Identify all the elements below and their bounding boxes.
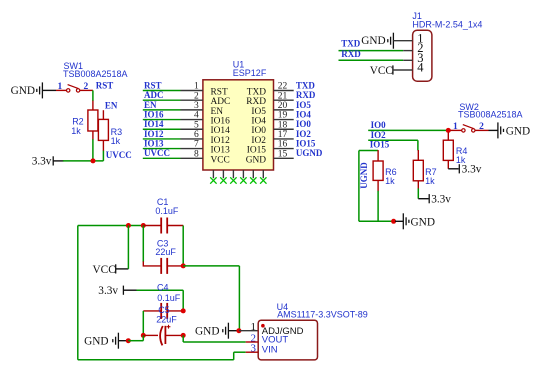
wire bottom rail VIN loop: [78, 359, 234, 361]
junction C5 right: [181, 333, 186, 338]
wire R3 to 3.3v rail: [102, 151, 104, 161]
wire IO2 horizontal: [368, 139, 418, 141]
U1 pin 3 line: [181, 109, 203, 111]
capacitor C4 left lead: [143, 310, 161, 312]
svg-text:IO13: IO13: [211, 146, 231, 156]
wire C5 right down to VOUT: [182, 335, 184, 342]
no-connect X on U1 pin 14: [260, 177, 266, 183]
wire R7 to 3.3v: [418, 198, 428, 200]
no-connect X on U1 pin 10: [220, 177, 226, 183]
svg-text:5: 5: [194, 120, 199, 130]
U1 pin 6 line: [181, 138, 203, 140]
svg-text:19: 19: [278, 111, 288, 121]
U1 pin 16 line: [274, 148, 294, 150]
svg-text:RXD: RXD: [341, 49, 361, 59]
svg-text:1k: 1k: [71, 126, 81, 136]
SW1 pin 1 lead: [56, 89, 66, 91]
resistor R4 top lead: [447, 132, 449, 140]
svg-text:7: 7: [194, 140, 199, 150]
wire U4 pin1 column: [238, 266, 240, 331]
capacitor C1 left lead: [143, 225, 161, 227]
switch SW2: [462, 125, 475, 132]
resistor R4 bottom lead: [447, 160, 449, 168]
junction GND bottom left: [126, 338, 131, 343]
svg-text:HDR-M-2.54_1x4: HDR-M-2.54_1x4: [412, 19, 482, 29]
svg-text:18: 18: [278, 120, 288, 130]
svg-text:6: 6: [194, 130, 199, 140]
capacitor C1: [161, 218, 167, 234]
resistor R2: [88, 110, 98, 131]
svg-text:ADC: ADC: [144, 90, 164, 100]
wire RST net vertical: [92, 90, 94, 101]
capacitor C5 left lead: [143, 334, 158, 336]
ground symbol (J1): [388, 33, 394, 49]
svg-text:IO14: IO14: [144, 119, 164, 129]
resistor R3 bottom lead: [102, 140, 104, 151]
svg-text:IO15: IO15: [370, 140, 390, 150]
J1 pin 1 line: [393, 40, 412, 42]
ground symbol (bottom left): [113, 333, 119, 349]
wire GND to SW1 pin 1: [42, 89, 56, 91]
connector J1 body: [413, 30, 432, 81]
U1 bottom pin 13 line: [252, 170, 254, 178]
resistor R3: [98, 119, 108, 140]
junction C1/C3 left: [141, 223, 146, 228]
wire net ADC to U1 pin 2: [143, 99, 181, 101]
J1 pin 4 line: [393, 69, 413, 71]
wire GND rail (SW2 block): [359, 220, 394, 222]
ground symbol (R6): [403, 213, 409, 229]
J1 pin 3 line: [403, 59, 412, 61]
U1 bottom pin 11 line: [232, 170, 234, 178]
power VCC bar (cap block): [115, 264, 117, 273]
power 3.3v pin (cap block): [123, 289, 136, 291]
capacitor C4 right lead: [167, 310, 183, 312]
svg-text:3.3v: 3.3v: [431, 194, 451, 206]
U1 pin 15 line: [274, 157, 294, 159]
svg-text:UGND: UGND: [296, 148, 323, 158]
svg-text:EN: EN: [105, 101, 118, 111]
wire 3.3v rail (SW1 block): [63, 160, 104, 162]
U1 bottom pin 10 line: [222, 170, 224, 178]
wire top rail: [78, 225, 144, 227]
svg-text:TXD: TXD: [247, 88, 266, 98]
svg-text:EN: EN: [144, 100, 157, 110]
no-connect X on U1 pin 9: [210, 177, 216, 183]
svg-text:IO4: IO4: [251, 117, 266, 127]
svg-text:4: 4: [194, 111, 199, 121]
power 3.3v pin (left): [53, 160, 63, 162]
svg-text:8: 8: [194, 149, 199, 159]
wire net IO12 to U1 pin 6: [143, 138, 181, 140]
capacitor C3 right lead: [167, 265, 183, 267]
svg-text:VCC: VCC: [211, 155, 230, 165]
no-connect X on U1 pin 12: [240, 177, 246, 183]
svg-text:GND: GND: [11, 85, 35, 97]
resistor R4: [443, 140, 453, 160]
svg-text:ESP12F: ESP12F: [233, 68, 267, 78]
svg-text:1: 1: [194, 82, 199, 92]
svg-text:IO0: IO0: [251, 126, 266, 136]
svg-text:IO16: IO16: [211, 117, 231, 127]
wire VIN to U4 pin 3: [234, 351, 246, 353]
svg-text:ADC: ADC: [211, 97, 231, 107]
wire net UVCC to U1 pin 8: [143, 157, 181, 159]
GND pin (mid): [228, 330, 239, 332]
wire R6 to GND rail: [377, 191, 379, 222]
J1 pin 2 line: [403, 50, 412, 52]
U1 pin 17 line: [274, 138, 294, 140]
U1 bottom pin 14 line: [262, 170, 264, 178]
power 3.3v bar (left): [52, 156, 54, 165]
resistor R6 top lead: [377, 150, 379, 161]
power 3.3v bar (R4): [458, 164, 460, 173]
svg-text:GND: GND: [361, 35, 385, 47]
wire net IO14 to U1 pin 5: [143, 128, 181, 130]
junction U4 pin 1: [236, 328, 241, 333]
ground symbol (mid): [223, 323, 229, 339]
svg-text:20: 20: [278, 101, 288, 111]
svg-text:TSB008A2518A: TSB008A2518A: [63, 69, 128, 79]
svg-text:GND: GND: [411, 216, 435, 228]
svg-text:3.3v: 3.3v: [32, 156, 52, 168]
resistor R7 bottom lead: [417, 181, 419, 189]
svg-text:VCC: VCC: [370, 65, 393, 77]
wire R4 to 3.3v: [448, 168, 458, 170]
svg-text:1k: 1k: [385, 176, 395, 186]
U1 pin 18 line: [274, 128, 294, 130]
svg-text:IO13: IO13: [144, 139, 164, 149]
svg-text:2: 2: [194, 91, 199, 101]
resistor R6: [373, 161, 383, 180]
svg-text:1k: 1k: [111, 136, 121, 146]
svg-text:GND: GND: [246, 155, 267, 165]
capacitor C5 right lead: [165, 334, 183, 336]
U4 pin-1 marker dot: [261, 324, 265, 328]
svg-text:RST: RST: [211, 88, 228, 98]
U1 pin 1 line: [181, 90, 203, 92]
capacitor C3: [161, 258, 167, 274]
svg-text:UGND: UGND: [359, 162, 369, 189]
svg-text:IO2: IO2: [251, 136, 266, 146]
regulator U4 body: [258, 320, 317, 360]
wire C4 right column upper: [182, 290, 184, 311]
svg-text:IO4: IO4: [296, 109, 312, 119]
U1 chip body: [203, 80, 274, 170]
svg-text:17: 17: [278, 130, 288, 140]
ground symbol (SW1): [37, 82, 43, 98]
svg-text:IO15: IO15: [296, 139, 316, 149]
junction C3 right: [181, 263, 186, 268]
svg-text:TXD: TXD: [341, 39, 361, 49]
junction C4 right: [181, 308, 186, 313]
U1 pin 19 line: [274, 119, 294, 121]
svg-text:GND: GND: [506, 125, 530, 137]
wire R7 down: [417, 188, 419, 198]
U4 pin 2 lead: [246, 341, 259, 343]
wire net IO16 to U1 pin 4: [143, 119, 181, 121]
wire junction to GND symbol: [395, 220, 403, 222]
svg-text:GND: GND: [195, 326, 219, 338]
wire VOUT to U4 pin 2: [183, 341, 246, 343]
svg-text:21: 21: [278, 91, 288, 101]
svg-text:22uF: 22uF: [155, 247, 176, 257]
svg-text:0.1uF: 0.1uF: [157, 293, 181, 303]
svg-text:RST: RST: [144, 80, 162, 90]
wire C5 left down leg: [142, 335, 144, 340]
wire TXD to J1 pin 2: [339, 50, 404, 52]
wire C3 right to U4 column: [183, 265, 239, 267]
svg-text:0.1uF: 0.1uF: [155, 206, 179, 216]
wire 3.3v to C4 column: [137, 289, 184, 291]
resistor R7: [413, 160, 423, 181]
svg-text:22uF: 22uF: [156, 315, 177, 325]
junction R2/3.3v rail: [91, 158, 96, 163]
power 3.3v bar (cap block): [122, 286, 124, 295]
svg-text:AMS1117-3.3VSOT-89: AMS1117-3.3VSOT-89: [277, 309, 368, 319]
U1 pin 5 line: [181, 128, 203, 130]
resistor R6 bottom lead: [377, 180, 379, 191]
SW2 pin 2 lead: [475, 129, 488, 131]
svg-text:UVCC: UVCC: [106, 150, 132, 160]
svg-text:R2: R2: [72, 117, 84, 127]
svg-text:IO5: IO5: [296, 100, 312, 110]
svg-text:IO15: IO15: [247, 146, 267, 156]
svg-text:IO2: IO2: [371, 130, 387, 140]
svg-text:GND: GND: [84, 336, 108, 348]
svg-text:IO0: IO0: [296, 119, 312, 129]
wire RXD to J1 pin 3: [339, 59, 404, 61]
svg-text:VCC: VCC: [93, 264, 116, 276]
SW2 pin 1 lead: [450, 129, 461, 131]
svg-text:VIN: VIN: [262, 345, 278, 356]
capacitor C4: [161, 303, 167, 319]
capacitor C5 (polarized): [160, 325, 170, 346]
svg-text:15: 15: [278, 149, 288, 159]
U1 pin 2 line: [181, 99, 203, 101]
power 3.3v bar (R7): [428, 194, 430, 203]
wire GND to C5 column: [128, 340, 143, 342]
wire net IO13 to U1 pin 7: [143, 148, 181, 150]
svg-text:1k: 1k: [425, 176, 435, 186]
svg-text:IO14: IO14: [211, 126, 231, 136]
switch SW1: [67, 85, 80, 93]
resistor R7 top lead: [417, 150, 419, 160]
svg-text:EN: EN: [211, 107, 224, 117]
SW1 pin 2 lead: [80, 89, 93, 91]
svg-text:UVCC: UVCC: [144, 148, 170, 158]
svg-text:IO16: IO16: [144, 109, 164, 119]
power VCC pin (cap block): [116, 268, 129, 270]
capacitor C3 left lead: [143, 261, 161, 266]
junction GND rail: [391, 219, 396, 224]
junction VCC tap: [126, 223, 131, 228]
svg-text:1: 1: [58, 82, 63, 92]
U4 pin 1 line: [239, 330, 258, 332]
svg-text:IO5: IO5: [251, 107, 266, 117]
svg-text:3.3v: 3.3v: [98, 285, 118, 297]
resistor R2 bottom lead: [92, 131, 94, 140]
resistor R2 top lead: [92, 101, 94, 110]
svg-text:TSB008A2518A: TSB008A2518A: [458, 110, 523, 120]
wire VIN up leg: [233, 352, 235, 360]
svg-text:22: 22: [278, 82, 288, 92]
svg-text:IO2: IO2: [296, 129, 312, 139]
svg-text:RXD: RXD: [296, 90, 316, 100]
U1 pin 7 line: [181, 148, 203, 150]
U1 pin 8 line: [181, 157, 203, 159]
svg-text:4: 4: [417, 61, 424, 75]
svg-text:TXD: TXD: [296, 80, 316, 90]
U1 pin 20 line: [274, 109, 294, 111]
wire C3 left vertical: [142, 226, 144, 263]
wire UGND vertical: [358, 151, 360, 222]
wire VCC to top rail: [127, 226, 129, 269]
junction IO0/R4/SW2: [446, 128, 451, 133]
wire IO2 vertical to R7: [417, 140, 419, 150]
svg-text:IO12: IO12: [211, 136, 231, 146]
wire net RST to U1 pin 1: [143, 90, 181, 92]
svg-text:IO0: IO0: [371, 120, 387, 130]
U4 pin 3 lead: [246, 351, 259, 353]
junction C5 left: [141, 333, 146, 338]
wire IO15 horizontal: [359, 150, 378, 152]
wire net EN to U1 pin 3: [143, 109, 181, 111]
wire SW2 to GND: [489, 129, 498, 131]
svg-text:16: 16: [278, 140, 288, 150]
svg-text:RST: RST: [96, 80, 114, 90]
resistor R3 top lead: [102, 110, 104, 119]
power VCC bar (J1): [392, 65, 394, 74]
svg-text:1: 1: [453, 122, 458, 132]
wire R2 to 3.3v rail: [92, 139, 94, 161]
svg-text:3.3v: 3.3v: [462, 164, 482, 176]
wire C1 right down to C3: [182, 226, 184, 266]
U1 bottom pin 12 line: [242, 170, 244, 178]
no-connect X on U1 pin 11: [230, 177, 236, 183]
ground symbol (SW2): [498, 122, 504, 138]
U1 pin 21 line: [274, 99, 294, 101]
U1 pin 4 line: [181, 119, 203, 121]
svg-text:1: 1: [251, 321, 257, 333]
wire IO0 to SW2: [368, 129, 448, 131]
wire C4 left down to C5: [142, 311, 144, 336]
U1 pin 22 line: [274, 90, 294, 92]
capacitor C1 right lead: [167, 225, 183, 227]
svg-text:C4: C4: [157, 282, 169, 292]
wire left riser VIN loop: [77, 226, 79, 360]
svg-text:RXD: RXD: [246, 97, 266, 107]
svg-text:IO12: IO12: [144, 129, 164, 139]
svg-text:3: 3: [194, 101, 199, 111]
GND pin (bottom left): [118, 340, 128, 342]
U1 bottom pin 9 line: [212, 170, 214, 178]
no-connect X on U1 pin 13: [250, 177, 256, 183]
